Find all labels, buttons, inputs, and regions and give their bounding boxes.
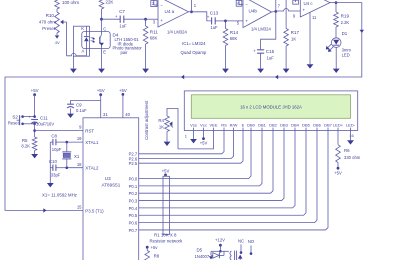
- svg-text:33pF: 33pF: [51, 172, 61, 177]
- potentiometer R4 1K contrast: [158, 109, 178, 149]
- svg-text:K: K: [81, 26, 84, 31]
- svg-text:IC1= LM324: IC1= LM324: [182, 41, 206, 46]
- svg-text:1uF: 1uF: [267, 55, 275, 60]
- rail from C8/C10 to ground: [47, 142, 54, 187]
- svg-text:XTAL2: XTAL2: [85, 166, 99, 171]
- svg-text:R5: R5: [22, 138, 28, 143]
- node U4b output pin 7: [272, 0, 281, 13]
- svg-text:−: −: [160, 3, 163, 8]
- op-amp U4a 1/4 LM324: [153, 0, 189, 35]
- ground for D4 LED loop: [70, 56, 77, 73]
- svg-text:VEE: VEE: [209, 123, 217, 128]
- svg-text:U4b: U4b: [249, 9, 258, 14]
- resistor R11 68K: [143, 19, 158, 68]
- svg-text:R10: R10: [46, 13, 55, 18]
- svg-text:+: +: [245, 19, 248, 24]
- phototransistor of D4 (C top, E bottom): [100, 26, 107, 54]
- wire LCD DB2 to P0.2: [139, 131, 273, 194]
- resistor R19 2.2K: [334, 3, 350, 38]
- svg-text:Vss: Vss: [190, 123, 197, 128]
- svg-text:10uF/16V: 10uF/16V: [36, 122, 54, 127]
- svg-text:NC: NC: [238, 238, 244, 243]
- svg-text:R6: R6: [344, 148, 350, 153]
- LCD pin number 16: [349, 133, 354, 138]
- ground under C9: [67, 114, 74, 118]
- svg-text:E: E: [103, 49, 106, 54]
- svg-text:-5V: -5V: [54, 41, 60, 45]
- wire LCD RS to P2.7: [139, 131, 224, 154]
- svg-text:1N4007: 1N4007: [195, 254, 210, 259]
- svg-text:NO: NO: [248, 239, 255, 244]
- svg-text:C8: C8: [51, 133, 57, 138]
- resistor 22K (top, partially cut): [99, 0, 113, 19]
- relay coil (partially cut): [220, 251, 236, 261]
- wire LCD VEE to contrast pot: [178, 131, 214, 149]
- svg-text:10pF: 10pF: [52, 147, 62, 152]
- wire LCD R/W to P2.6: [139, 131, 234, 159]
- svg-text:Resistor network: Resistor network: [150, 239, 184, 244]
- pin XTAL1: [67, 136, 99, 145]
- svg-text:P0.2: P0.2: [129, 191, 138, 196]
- svg-text:+5v: +5v: [151, 245, 159, 250]
- svg-text:1K: 1K: [159, 124, 164, 129]
- svg-text:R/W: R/W: [230, 123, 238, 128]
- svg-text:Contrast adjustment: Contrast adjustment: [144, 100, 149, 140]
- svg-text:+: +: [28, 115, 31, 120]
- svg-text:LED-: LED-: [346, 123, 356, 128]
- ground under R5: [31, 154, 38, 158]
- resistor R17 1K: [284, 29, 300, 69]
- svg-text:+: +: [160, 18, 163, 23]
- svg-text:Quad Opamp: Quad Opamp: [181, 50, 207, 55]
- node U4c output: [330, 1, 337, 4]
- relay contact NO: [248, 239, 255, 255]
- svg-text:Reset: Reset: [8, 120, 20, 125]
- svg-text:Preset: Preset: [42, 26, 55, 31]
- svg-text:1/4 LM324: 1/4 LM324: [167, 30, 187, 35]
- resistor R14 68K: [223, 21, 238, 69]
- svg-text:P3.5 (T1): P3.5 (T1): [85, 208, 104, 213]
- pin RST: [85, 128, 94, 133]
- svg-text:+12V: +12V: [215, 238, 225, 243]
- ground under R17: [283, 69, 290, 73]
- svg-text:DB7: DB7: [324, 123, 333, 128]
- svg-text:U3: U3: [105, 176, 111, 181]
- diode D5 1N4007: [195, 248, 225, 260]
- wire node C to U4b pin 5: [226, 21, 244, 26]
- svg-text:−: −: [245, 2, 248, 7]
- svg-text:68K: 68K: [230, 36, 238, 41]
- potentiometer R10 470 ohm Preset: [39, 12, 67, 56]
- crystal X1: [62, 141, 80, 169]
- svg-text:P2.5: P2.5: [129, 161, 138, 166]
- svg-text:P0.1: P0.1: [129, 184, 138, 189]
- LED D1 3mm: [326, 31, 352, 68]
- ground under R14: [222, 69, 229, 73]
- capacitor C13 1uF: [207, 11, 226, 30]
- ground under R11: [142, 69, 149, 73]
- capacitor C7 1uF: [115, 9, 146, 29]
- power +5V at LCD Vcc: [200, 131, 208, 146]
- LCD pin number 1: [185, 134, 188, 139]
- optocoupler D4 outer body: [73, 26, 89, 56]
- node U4a output pin 1: [189, 0, 197, 13]
- pin P3.5 (T1): [77, 204, 104, 213]
- wire R10 wiper to D4 anode (with hop over ground wire): [67, 53, 87, 55]
- feedback line from top to R17: [285, 0, 287, 29]
- LCD screen 16x2: [191, 95, 350, 119]
- svg-text:R1 10K X 8: R1 10K X 8: [154, 233, 177, 238]
- svg-text:19: 19: [77, 136, 82, 141]
- IR LED of D4 (K top, A bottom): [81, 26, 95, 56]
- power +5V node bottom left: [146, 245, 159, 251]
- svg-text:X1: X1: [74, 154, 80, 159]
- power +12V relay supply: [215, 238, 225, 253]
- svg-text:U4 c: U4 c: [304, 1, 314, 6]
- svg-text:1K: 1K: [291, 37, 296, 42]
- microcontroller U3 AT89S51 body: [83, 118, 139, 261]
- node B (C7 / R11 / U4a pin3): [144, 18, 147, 21]
- svg-text:D1: D1: [342, 31, 348, 36]
- ground at LCD Vss: [190, 131, 197, 144]
- svg-text:+5V: +5V: [31, 88, 39, 93]
- svg-text:+5V: +5V: [97, 88, 105, 93]
- labels U3 AT89S51: [101, 176, 120, 187]
- resistor R6 330 ohm (LCD backlight): [336, 131, 361, 168]
- svg-text:DB5: DB5: [302, 123, 311, 128]
- svg-text:+: +: [303, 7, 306, 12]
- svg-text:R14: R14: [230, 30, 239, 35]
- wire U4a output to C13: [192, 12, 212, 21]
- node C (C13 / R14 / U4b pin5): [224, 20, 227, 23]
- svg-text:U4 a: U4 a: [165, 9, 175, 14]
- LCD module body: [184, 91, 357, 131]
- power +5V node above pin 31: [97, 88, 109, 118]
- svg-text:+5V: +5V: [119, 88, 127, 93]
- wire node B to U4a pin 3: [146, 18, 158, 20]
- ground for D4 emitter: [98, 49, 105, 74]
- svg-text:330 ohm: 330 ohm: [344, 155, 361, 160]
- resistor R5 8.2K: [21, 137, 37, 154]
- label X1 frequency: [42, 192, 77, 197]
- power +5V under R6: [334, 167, 342, 176]
- svg-text:8.2K: 8.2K: [21, 144, 30, 149]
- LCD pin stubs: [194, 128, 351, 131]
- svg-text:DB6: DB6: [313, 123, 322, 128]
- wire LCD DB5 to P0.5: [139, 131, 306, 216]
- svg-text:S2: S2: [12, 114, 18, 119]
- pin 2 wire of U4a with boxed stub from top: [151, 0, 158, 7]
- svg-text:R19: R19: [341, 14, 350, 19]
- svg-text:16 x 2 LCD MODULE JHD 162A: 16 x 2 LCD MODULE JHD 162A: [240, 105, 302, 110]
- resistor network R1 10K X 8: [163, 176, 170, 234]
- capacitor C11 10uF/16V: [28, 115, 54, 137]
- ground under C15: [257, 69, 264, 73]
- svg-text:RS: RS: [221, 123, 227, 128]
- svg-text:P0.4: P0.4: [129, 206, 138, 211]
- op-amp U4c 1/4 LM324: [300, 0, 330, 17]
- wire U4b output to C15: [261, 11, 276, 49]
- svg-text:D5: D5: [197, 248, 203, 253]
- svg-text:C: C: [103, 26, 106, 31]
- power +5V node above pin 40: [119, 88, 131, 118]
- svg-text:DB4: DB4: [291, 123, 300, 128]
- svg-text:11: 11: [312, 15, 317, 20]
- svg-text:18: 18: [77, 162, 82, 167]
- svg-text:A: A: [82, 49, 85, 54]
- svg-text:68K: 68K: [150, 36, 158, 41]
- svg-text:470 ohm: 470 ohm: [39, 20, 56, 25]
- svg-text:P0.5: P0.5: [129, 213, 138, 218]
- svg-text:15: 15: [77, 204, 82, 209]
- svg-text:31: 31: [103, 112, 108, 117]
- svg-text:DB1: DB1: [258, 123, 267, 128]
- switch S2 Reset: [8, 114, 35, 125]
- wire LCD DB6 to P0.6: [139, 131, 317, 223]
- pin XTAL2: [67, 162, 99, 171]
- svg-text:R8: R8: [154, 254, 160, 259]
- pin 11 power wire of U4c to ground: [307, 12, 317, 68]
- wire U4b output to U4c pin 9 (hop over R17 feedback line): [276, 9, 301, 19]
- wire RST to mcu pin 9: [33, 125, 83, 132]
- svg-text:1uF: 1uF: [210, 25, 218, 30]
- svg-text:AT89S51: AT89S51: [101, 182, 120, 187]
- svg-text:DB2: DB2: [269, 123, 278, 128]
- svg-text:RST: RST: [85, 128, 94, 133]
- wire LCD DB3 to P0.3: [139, 131, 284, 201]
- pin 9 stub box from top: [293, 0, 299, 4]
- wire LCD DB7 to P0.7: [139, 131, 328, 230]
- svg-text:C7: C7: [119, 9, 125, 14]
- power +5V above resistor network R1: [162, 168, 170, 176]
- svg-text:R4: R4: [158, 118, 164, 123]
- capacitor C8 10pF: [50, 133, 67, 151]
- svg-text:+5V: +5V: [200, 140, 208, 145]
- label Contrast adjustment (vertical): [144, 100, 149, 140]
- svg-text:DB3: DB3: [280, 123, 289, 128]
- svg-text:R11: R11: [150, 29, 159, 34]
- svg-text:E: E: [242, 123, 245, 128]
- ground under R4: [164, 142, 171, 146]
- wire LCD DB4 to P0.4: [139, 131, 295, 208]
- svg-text:+: +: [115, 14, 118, 19]
- relay contact NC: [238, 238, 244, 260]
- svg-text:40: 40: [125, 112, 130, 117]
- node A (22K / C7 / D4 collector): [100, 18, 103, 26]
- optocoupler D4 inner body: [82, 32, 110, 49]
- label IC1= LM324 Quad Opamp: [181, 41, 207, 55]
- capacitor C10 33pF: [49, 159, 67, 177]
- pin labels P2.7 P2.6 P2.5: [129, 152, 138, 166]
- op-amp U4b 1/4 LM324: [243, 0, 272, 31]
- resistor 100 ohm (top, partially cut): [55, 0, 80, 12]
- svg-text:C13: C13: [210, 11, 219, 16]
- svg-text:pair: pair: [121, 50, 129, 55]
- svg-text:16: 16: [349, 133, 354, 138]
- svg-text:P0.7: P0.7: [129, 228, 138, 233]
- wire LCD E to P2.5: [139, 131, 243, 164]
- labels R1 resistor network: [150, 233, 184, 244]
- svg-text:X1= 11.0592 MHz: X1= 11.0592 MHz: [42, 192, 77, 197]
- svg-text:LED: LED: [342, 53, 350, 58]
- pin 6 wire of U4b with boxed stub from top: [236, 0, 243, 6]
- svg-text:P0.6: P0.6: [129, 221, 138, 226]
- svg-text:R17: R17: [291, 30, 300, 35]
- svg-text:DB0: DB0: [247, 123, 256, 128]
- capacitor C15 1uF: [253, 48, 274, 68]
- svg-text:+5V: +5V: [334, 170, 342, 175]
- svg-text:XTAL1: XTAL1: [85, 140, 99, 145]
- svg-text:1/4 LM324: 1/4 LM324: [251, 26, 271, 31]
- svg-text:C11: C11: [40, 116, 48, 121]
- svg-text:+5V: +5V: [162, 168, 170, 173]
- svg-text:LED+: LED+: [333, 123, 344, 128]
- svg-text:0.1uF: 0.1uF: [76, 108, 87, 113]
- power +5V node above S2: [31, 88, 39, 117]
- ground at LCD LED-: [347, 131, 354, 145]
- svg-text:P0.3: P0.3: [129, 198, 138, 203]
- ground under D1: [333, 69, 340, 73]
- svg-text:22K: 22K: [106, 0, 114, 5]
- svg-text:100 ohm: 100 ohm: [62, 0, 79, 5]
- svg-text:Vcc: Vcc: [200, 123, 207, 128]
- LCD pin name labels: [190, 123, 356, 128]
- resistor R8 (partially cut): [145, 251, 160, 262]
- svg-text:P0.0: P0.0: [129, 176, 138, 181]
- capacitor C9 0.1uF: [67, 100, 101, 113]
- labels D4 LTH 1550-01: [113, 32, 143, 54]
- wire U4c output loop to P3.5(T1): right edge and long return: [5, 3, 364, 213]
- svg-text:2.2K: 2.2K: [341, 20, 350, 25]
- svg-text:1uF: 1uF: [119, 24, 127, 29]
- wire LCD DB0 to P0.0: [139, 131, 251, 179]
- wire node A to C7: [102, 18, 121, 20]
- svg-text:C15: C15: [266, 49, 275, 54]
- svg-text:+: +: [253, 48, 256, 53]
- pin labels P0.0 - P0.7: [129, 176, 138, 232]
- wire LCD DB1 to P0.1: [139, 131, 262, 186]
